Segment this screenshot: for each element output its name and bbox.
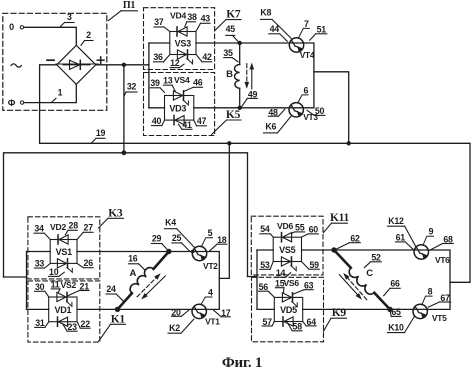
terminal Ф [8, 98, 24, 108]
wire 1 (terminal Ф to bridge) [24, 84, 77, 102]
label K2 [168, 319, 194, 333]
label 23 [63, 322, 77, 332]
wire VD3 row [149, 107, 304, 109]
flux arrow C dashed [343, 273, 367, 300]
svg-text:36: 36 [153, 52, 163, 62]
label 35 [223, 48, 238, 62]
svg-text:63: 63 [304, 281, 314, 291]
label 13 [163, 76, 175, 92]
svg-text:41: 41 [182, 120, 192, 130]
svg-text:A: A [129, 268, 136, 279]
svg-text:0: 0 [9, 22, 14, 32]
svg-text:VS2: VS2 [61, 280, 77, 290]
label 56 [259, 282, 275, 297]
svg-text:25: 25 [172, 233, 182, 243]
svg-text:VD5: VD5 [280, 305, 297, 315]
svg-text:67: 67 [440, 293, 450, 303]
thyristor VS2 (top edge) [57, 292, 67, 301]
label 50 [307, 106, 325, 116]
label 26 [77, 258, 93, 268]
wire VD5 row [257, 308, 427, 310]
svg-text:K5: K5 [226, 109, 241, 121]
svg-text:VD1: VD1 [55, 305, 72, 315]
label 2 [81, 30, 93, 45]
transistor VT1 [192, 304, 206, 318]
label 47 [194, 116, 207, 126]
label 61 [396, 233, 414, 250]
thyristor VS5 (bottom edge) [281, 257, 291, 266]
junction dot bus19 right [347, 141, 351, 145]
svg-text:45: 45 [226, 24, 236, 34]
text VT3 [303, 112, 318, 122]
svg-text:31: 31 [35, 318, 45, 328]
svg-text:VD2: VD2 [50, 222, 66, 232]
svg-text:VS6: VS6 [283, 278, 299, 288]
label 18 [209, 235, 227, 251]
svg-text:39: 39 [150, 78, 160, 88]
junction dot C top [331, 247, 336, 252]
svg-text:38: 38 [187, 12, 197, 22]
terminal 0 [9, 22, 23, 32]
label 54 [260, 224, 273, 237]
svg-text:50: 50 [315, 106, 325, 116]
text VS2 [61, 280, 77, 290]
dashed box K1 [28, 281, 100, 342]
svg-text:13: 13 [163, 76, 173, 86]
module rectangle VS5 [273, 237, 301, 261]
text VS6 [283, 278, 299, 288]
svg-text:37: 37 [154, 17, 164, 27]
label 63 [293, 281, 314, 295]
label 6 [303, 85, 308, 95]
label 17 [214, 308, 231, 318]
label 21 [68, 281, 89, 296]
svg-text:K1: K1 [111, 313, 126, 325]
text VD3 [169, 103, 186, 113]
label 67 [428, 293, 450, 307]
gate of VS1 [67, 267, 72, 272]
label 59 [302, 260, 320, 270]
label 36 [153, 52, 169, 62]
svg-text:29: 29 [152, 234, 162, 244]
svg-text:59: 59 [309, 260, 319, 270]
gate of VS4 [183, 100, 189, 105]
dashed box K11 [251, 216, 323, 275]
svg-text:Ф: Ф [8, 98, 16, 108]
wire VT6 to common [427, 250, 450, 309]
svg-text:C: C [366, 268, 373, 279]
thyristor VS6 (top edge) [282, 293, 292, 302]
svg-text:52: 52 [371, 253, 381, 263]
svg-text:VT1: VT1 [205, 317, 220, 327]
flux arrow C solid [340, 275, 363, 300]
svg-text:23: 23 [67, 322, 77, 332]
svg-text:5: 5 [208, 228, 213, 238]
junction dot bus19 left [227, 141, 231, 145]
svg-text:66: 66 [390, 279, 400, 289]
label 43 [196, 14, 210, 32]
transistor VT2 [192, 246, 206, 260]
label K8 [260, 8, 291, 39]
label 1 [52, 64, 99, 102]
svg-text:Фиг. 1: Фиг. 1 [222, 355, 262, 371]
text VD6 [277, 221, 293, 231]
label 8 [428, 287, 433, 297]
svg-text:VD3: VD3 [169, 103, 186, 113]
label 58 [288, 322, 303, 332]
label K11 [323, 212, 349, 233]
label 29 [151, 234, 168, 251]
svg-text:11: 11 [51, 280, 60, 290]
label 34 [34, 223, 50, 239]
svg-text:62: 62 [350, 234, 360, 244]
text C [366, 268, 373, 279]
wire VS1 row [27, 251, 207, 253]
svg-text:K7: K7 [226, 9, 241, 21]
svg-text:53: 53 [260, 260, 270, 270]
text VT4 [300, 50, 315, 60]
svg-text:6: 6 [303, 85, 308, 95]
wire VT2 to common [206, 252, 219, 310]
wire VS5 row [257, 249, 429, 251]
label 12 [170, 58, 184, 68]
label 24 [106, 284, 124, 301]
label 37 [154, 17, 170, 32]
collector stub 4 of VT1 [201, 297, 212, 305]
svg-text:10: 10 [49, 267, 59, 277]
text VS4 [174, 75, 190, 85]
svg-text:1: 1 [58, 88, 63, 98]
bridge rectifier 2 (diamond) [57, 45, 96, 84]
label 68 [430, 235, 454, 251]
transistor VT6 [414, 245, 428, 259]
label K9 [324, 307, 347, 331]
label 62 [336, 234, 360, 250]
junction dot wire32 to bus [122, 150, 127, 155]
collector stub 7 of VT4 [298, 28, 309, 38]
phase C feed stub [248, 250, 258, 309]
gate of VS3 [187, 59, 193, 64]
text VT5 [432, 313, 447, 323]
label 19 [92, 128, 106, 143]
svg-text:8: 8 [428, 287, 433, 297]
label 60 [302, 224, 319, 237]
svg-text:VD4: VD4 [170, 11, 186, 21]
wire 19 (negative bus from bridge) [40, 65, 470, 282]
module rectangle VD3 [165, 96, 194, 121]
label K6 [264, 116, 292, 133]
svg-text:27: 27 [84, 223, 94, 233]
text VT2 [203, 261, 218, 271]
svg-text:47: 47 [197, 116, 207, 126]
flux arrow A dashed [137, 273, 161, 297]
svg-text:58: 58 [293, 322, 303, 332]
svg-text:K12: K12 [388, 216, 404, 226]
label 38 [185, 12, 197, 27]
text VD4 [170, 11, 186, 21]
label 57 [262, 317, 274, 327]
junction dot A top [166, 249, 171, 254]
svg-text:K11: K11 [330, 212, 350, 224]
diode VD1 (bottom edge) [58, 317, 68, 326]
svg-text:3: 3 [67, 12, 72, 22]
svg-text:4: 4 [208, 288, 213, 298]
svg-text:22: 22 [81, 319, 91, 329]
text VD5 [280, 305, 297, 315]
label 40 [152, 116, 165, 126]
wire VD1 row [27, 308, 207, 310]
svg-text:K4: K4 [165, 218, 176, 228]
svg-text:K6: K6 [265, 122, 276, 132]
module rectangle VS1 [50, 240, 77, 264]
svg-text:42: 42 [202, 52, 212, 62]
svg-text:14: 14 [276, 268, 286, 278]
svg-text:55: 55 [295, 222, 305, 232]
svg-text:16: 16 [128, 253, 138, 263]
collector stub 5 of VT2 [201, 238, 212, 247]
text VT6 [435, 255, 450, 265]
svg-text:K3: K3 [108, 207, 123, 219]
positive bus distribution rectangle top [4, 153, 248, 277]
junction dot at VT2 base [191, 250, 195, 254]
thyristor VS1 (bottom edge) [57, 259, 67, 268]
svg-text:51: 51 [317, 25, 327, 35]
wire inductor B vertical [239, 43, 241, 108]
label 14 [276, 268, 291, 278]
collector stub 6 of VT3 [298, 95, 308, 103]
text VT1 [205, 317, 220, 327]
label K4 [164, 218, 194, 248]
label K1 [99, 313, 126, 341]
svg-text:K2: K2 [169, 323, 180, 333]
diode VD6 (top edge) [282, 233, 292, 242]
gate of VS2 [66, 301, 72, 306]
label 66 [384, 279, 401, 296]
label 55 [291, 222, 304, 233]
label 15 [275, 279, 285, 293]
flux arrow A solid [141, 276, 165, 300]
label 5 [208, 228, 213, 238]
junction dot A bottom [115, 307, 120, 312]
svg-text:44: 44 [270, 24, 280, 34]
label K5 [212, 109, 242, 135]
label 3 [60, 12, 74, 27]
dashed box K9 [252, 277, 324, 342]
svg-text:28: 28 [69, 221, 79, 231]
label 16 [128, 253, 145, 270]
svg-text:12: 12 [170, 58, 180, 68]
svg-text:15: 15 [275, 279, 285, 289]
svg-text:VS1: VS1 [56, 247, 73, 257]
svg-text:П1: П1 [123, 0, 136, 11]
svg-text:46: 46 [193, 78, 203, 88]
label 52 [364, 253, 381, 268]
text VD1 [55, 305, 72, 315]
svg-text:57: 57 [262, 317, 272, 327]
label 42 [196, 52, 212, 62]
junction dot C bottom [387, 307, 392, 312]
svg-text:2: 2 [86, 30, 91, 40]
inductor C winding [334, 250, 390, 309]
label K3 [99, 207, 124, 228]
minus sign [47, 59, 54, 61]
label 44 [269, 24, 288, 41]
junction dot B bottom [238, 106, 242, 110]
svg-text:32: 32 [127, 82, 137, 92]
label П1 [109, 0, 138, 20]
junction dot B top [238, 41, 242, 45]
AC symbol ~ [11, 64, 21, 67]
text VS1 [56, 247, 73, 257]
label 31 [35, 318, 49, 328]
svg-text:61: 61 [396, 233, 406, 243]
inductor B winding [235, 65, 240, 89]
label 4 [208, 288, 213, 298]
phase B feed vertical [148, 43, 150, 108]
wire VS3 row [149, 42, 304, 44]
svg-text:54: 54 [260, 224, 270, 234]
module rectangle VD1 [49, 297, 77, 322]
module rectangle VS3 [170, 32, 196, 55]
junction dot at bridge output [122, 63, 126, 67]
text VS3 [175, 39, 192, 49]
dashed box П1 (rectifier unit) [3, 13, 107, 110]
svg-text:B: B [226, 69, 233, 80]
label 32 [124, 82, 137, 96]
label 46 [184, 78, 202, 92]
module rectangle VD5 [274, 297, 302, 321]
label 20 [171, 308, 189, 318]
svg-text:7: 7 [304, 19, 309, 29]
label 9 [429, 227, 434, 237]
svg-text:21: 21 [80, 281, 90, 291]
label 53 [260, 260, 273, 270]
svg-text:VS4: VS4 [174, 75, 190, 85]
svg-text:65: 65 [391, 307, 401, 317]
inductor A winding [118, 252, 169, 310]
wire 3 (terminal 0 to bridge) [24, 27, 77, 45]
text B [226, 69, 233, 80]
bridge diode symbol [63, 60, 90, 69]
label 30 [35, 282, 49, 297]
svg-text:30: 30 [35, 282, 45, 292]
label 48 [268, 107, 285, 117]
svg-text:33: 33 [35, 258, 45, 268]
label 27 [77, 223, 93, 240]
collector stub 9 of VT6 [423, 236, 434, 245]
label 41 [179, 120, 193, 130]
svg-text:VS5: VS5 [279, 245, 296, 255]
caption Фиг. 1 [222, 355, 262, 371]
label 65 [390, 307, 401, 317]
svg-text:43: 43 [201, 14, 211, 24]
dashed box K5 [144, 73, 215, 136]
svg-text:VT5: VT5 [432, 313, 447, 323]
svg-text:VT2: VT2 [203, 261, 218, 271]
diode VD2 (top edge) [58, 235, 68, 244]
thyristor VS3 (bottom edge) [177, 50, 187, 59]
svg-text:24: 24 [106, 284, 116, 294]
phase A feed stub [4, 252, 27, 310]
diode VD4 (top edge) [177, 27, 187, 36]
svg-text:VD6: VD6 [277, 221, 293, 231]
text VS5 [279, 245, 296, 255]
svg-text:40: 40 [152, 116, 162, 126]
label 28 [65, 221, 78, 235]
label 22 [77, 319, 90, 329]
label 11 [51, 280, 60, 293]
label 33 [34, 258, 50, 268]
text A [129, 268, 136, 279]
diode VD5 (bottom edge) [283, 317, 293, 326]
diode VD3 (bottom edge) [174, 116, 184, 125]
svg-text:56: 56 [259, 282, 269, 292]
svg-text:9: 9 [429, 227, 434, 237]
label K12 [388, 216, 417, 247]
label 45 [226, 24, 239, 42]
dashed box K3 [28, 217, 100, 279]
label K7 [215, 9, 241, 31]
svg-text:VT6: VT6 [435, 255, 450, 265]
svg-text:35: 35 [223, 48, 233, 58]
label 49 [241, 90, 258, 108]
svg-text:34: 34 [34, 223, 44, 233]
plus sign [97, 57, 104, 64]
svg-text:26: 26 [84, 258, 94, 268]
transistor VT5 [413, 304, 427, 318]
svg-text:60: 60 [309, 224, 319, 234]
label 39 [150, 78, 164, 92]
svg-text:K10: K10 [388, 323, 404, 333]
wire VT4/VT3 common to bus19 [314, 72, 349, 144]
flux arrow up (solid) B [250, 63, 255, 89]
gate of VS5 [291, 266, 296, 271]
label 10 [49, 267, 65, 277]
transistor VT3 [289, 103, 303, 117]
collector stub 8 of VT5 [422, 296, 432, 305]
dashed box K7 [144, 8, 215, 70]
svg-text:VS3: VS3 [175, 39, 192, 49]
label 51 [310, 25, 327, 41]
label 7 [304, 19, 309, 29]
label 64 [303, 317, 316, 327]
text VD2 [50, 222, 66, 232]
flux arrow down (dashed) B [245, 64, 250, 89]
label K10 [388, 316, 415, 332]
wire VT2/VT1 common to bus19 [219, 143, 229, 278]
wire VT4 to common [303, 43, 314, 108]
gate of VS6 [292, 302, 297, 307]
svg-text:K8: K8 [260, 8, 271, 18]
label 25 [172, 233, 189, 251]
transistor VT4 [289, 38, 303, 52]
svg-text:19: 19 [96, 128, 106, 138]
wire 32 (positive bus from bridge) [96, 65, 149, 153]
thyristor VS4 (top edge) [173, 91, 183, 100]
svg-text:VT4: VT4 [300, 50, 315, 60]
